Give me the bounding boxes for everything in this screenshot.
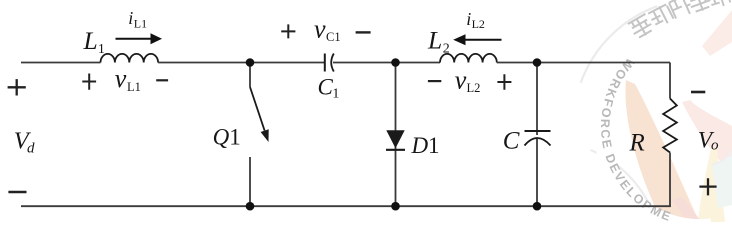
label Vo bbox=[698, 128, 719, 154]
switch Q1 arrowhead bbox=[261, 129, 269, 142]
svg-text:L: L bbox=[83, 26, 98, 55]
switch Q1 bottom stub bbox=[249, 157, 251, 206]
wire resistor bottom to bottom-right corner bbox=[669, 153, 671, 207]
svg-text:L: L bbox=[427, 26, 442, 55]
svg-text:C: C bbox=[318, 74, 334, 99]
svg-text:v: v bbox=[314, 14, 326, 43]
wire top-left from Vd+ to L1 bbox=[21, 62, 101, 64]
label iL1 bbox=[128, 8, 147, 30]
svg-text:C: C bbox=[503, 128, 520, 155]
node B junction dot bbox=[391, 58, 400, 67]
source minus sign bbox=[8, 191, 26, 194]
label vL2 bbox=[455, 65, 481, 95]
switch Q1 blade bbox=[250, 87, 265, 131]
svg-text:L2: L2 bbox=[467, 81, 481, 95]
svg-text:1: 1 bbox=[229, 125, 241, 150]
wire L1 to node A to C1 bbox=[158, 62, 324, 64]
svg-text:1: 1 bbox=[98, 42, 105, 57]
svg-text:v: v bbox=[115, 64, 127, 93]
svg-text:2: 2 bbox=[443, 42, 450, 57]
wire C1 to node B to L2 bbox=[333, 62, 440, 64]
capacitor C1 right curved plate bbox=[331, 54, 334, 72]
label D1 bbox=[411, 133, 440, 158]
wire node C down to capacitor C bbox=[536, 63, 538, 136]
label iL2 bbox=[466, 9, 485, 31]
diode D1 triangle bbox=[386, 130, 404, 148]
svg-text:i: i bbox=[128, 8, 133, 28]
node C junction dot bbox=[533, 58, 542, 67]
svg-text:L1: L1 bbox=[127, 80, 141, 94]
node E junction dot bbox=[391, 202, 400, 211]
wire capacitor C to bottom rail bbox=[536, 139, 538, 206]
vC1 plus sign bbox=[281, 24, 295, 38]
capacitor C top plate bbox=[525, 130, 551, 132]
Vo plus sign bbox=[699, 178, 716, 195]
svg-text:o: o bbox=[711, 138, 719, 154]
svg-text:d: d bbox=[27, 141, 35, 157]
source plus sign bbox=[8, 79, 26, 95]
svg-text:i: i bbox=[466, 9, 471, 29]
label C1 bbox=[318, 74, 340, 101]
diode D1 cathode bar bbox=[386, 149, 405, 151]
svg-text:R: R bbox=[629, 130, 645, 157]
wire node B down through diode bbox=[395, 63, 397, 207]
Vo minus sign bbox=[691, 91, 705, 94]
label L2 bbox=[427, 26, 450, 57]
svg-text:1: 1 bbox=[332, 87, 339, 102]
inductor L1 bbox=[101, 54, 159, 63]
vL2 minus sign bbox=[428, 80, 441, 82]
svg-text:1: 1 bbox=[428, 133, 440, 158]
wire bottom rail bbox=[21, 205, 671, 207]
vL1 plus sign bbox=[82, 74, 96, 90]
svg-text:D: D bbox=[411, 133, 429, 158]
svg-text:L1: L1 bbox=[134, 17, 147, 31]
label Vd bbox=[14, 128, 35, 157]
label R bbox=[629, 130, 645, 157]
node A junction dot bbox=[246, 58, 255, 67]
vL2 plus sign bbox=[497, 74, 511, 90]
svg-text:Q: Q bbox=[213, 125, 230, 150]
resistor R zigzag bbox=[663, 99, 677, 153]
switch Q1 top stub bbox=[249, 63, 251, 88]
node D junction dot bbox=[246, 202, 255, 211]
svg-text:L2: L2 bbox=[472, 17, 485, 31]
node F junction dot bbox=[533, 202, 542, 211]
vC1 minus sign bbox=[356, 31, 371, 33]
wire L2 to node C to top-right corner bbox=[497, 62, 670, 64]
capacitor C curved bottom plate bbox=[525, 138, 551, 146]
label Q1 bbox=[213, 125, 241, 150]
svg-text:C1: C1 bbox=[326, 30, 341, 44]
label L1 bbox=[83, 26, 105, 57]
current arrow iL1 bbox=[116, 33, 163, 44]
current arrow iL2 bbox=[453, 34, 501, 45]
label vC1 bbox=[314, 14, 341, 44]
label vL1 bbox=[115, 64, 141, 94]
capacitor C1 left plate bbox=[324, 54, 326, 72]
inductor L2 bbox=[440, 54, 497, 63]
wire right side down to resistor R bbox=[669, 63, 671, 99]
vL1 minus sign bbox=[156, 79, 168, 81]
svg-text:v: v bbox=[455, 65, 467, 94]
label C bbox=[503, 128, 520, 155]
